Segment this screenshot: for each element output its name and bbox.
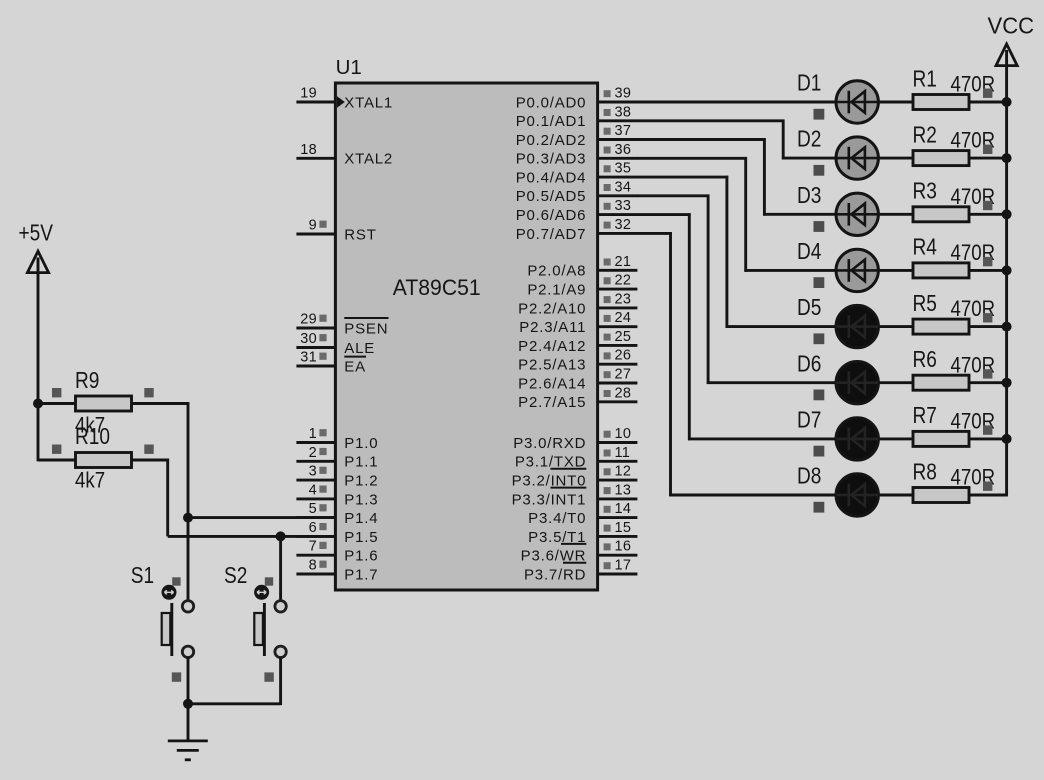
svg-text:6: 6 [309,520,317,536]
wire pin 33 vertical drop [688,213,691,440]
junction dot R7/VCC rail [1002,434,1012,444]
U1 value label AT89C51 [393,274,481,300]
svg-text:D8: D8 [797,464,821,489]
wire pin 32 horizontal run [637,232,672,235]
LED D7 internal wire [836,438,878,441]
wire pin 36 vertical drop [744,157,747,272]
svg-text:P0.5/AD5: P0.5/AD5 [516,188,587,205]
pin 10 gray marker square [604,431,611,438]
pin 10 P3.0/RXD wire stub [597,441,638,444]
svg-text:19: 19 [300,86,317,102]
LED D2 cathode bar [847,147,850,170]
INT1 overline [551,487,587,489]
svg-text:39: 39 [615,86,632,102]
svg-text:P1.6: P1.6 [344,548,378,565]
switch S1 contact bar [170,603,173,656]
pin 6 P1.5 wire stub [296,535,336,538]
svg-text:4k7: 4k7 [75,469,105,493]
wire D1 to R1 [878,101,913,104]
wire R9 to corner [132,402,190,405]
pin 23 gray marker square [604,296,611,303]
switch S1 lower marker square [172,672,181,681]
LED D5 anode triangle [851,316,865,338]
junction dot R5/VCC rail [1002,322,1012,332]
pin 1 gray marker square [319,429,326,436]
wire D6 to R6 [878,381,913,384]
pin 33 gray marker square [604,203,611,210]
wire pin 38 vertical drop [782,120,785,160]
svg-text:D7: D7 [797,408,821,433]
svg-text:P2.1/A9: P2.1/A9 [527,282,586,299]
svg-text:D1: D1 [797,71,821,96]
svg-text:15: 15 [615,520,632,536]
resistor R7 gray marker square [983,425,992,434]
LED D6 internal wire [836,381,878,384]
svg-text:P2.5/A13: P2.5/A13 [518,357,586,374]
pin 27 gray marker square [604,371,611,378]
svg-text:D5: D5 [797,296,821,321]
resistor R7 value label 470R [951,410,996,434]
pin 19 XTAL1 wire stub [296,101,336,104]
LED D3 internal wire [836,213,878,216]
svg-text:PSEN: PSEN [344,320,388,337]
pin 39 gray marker square [604,90,611,97]
pin 30 gray marker square [319,334,326,341]
pin 9 RST wire stub [296,233,336,236]
svg-text:EA: EA [344,358,366,375]
wire S1 to S2 bottom bus [188,702,281,705]
svg-text:29: 29 [300,312,317,328]
wire R6 to VCC rail [969,381,1008,384]
resistor R3 value label 470R [951,186,996,210]
resistor R3 gray marker square [983,201,992,210]
resistor R8 reference label [913,460,937,485]
pin 32 gray marker square [604,222,611,229]
+5V net label [19,221,53,246]
LED D8 reference label [797,464,821,489]
resistor R3 body [913,207,969,222]
svg-text:R10: R10 [75,424,110,449]
switch S2 actuator button [254,585,269,600]
pin 8 gray marker square [319,561,326,568]
svg-text:12: 12 [615,464,632,480]
svg-text:13: 13 [615,482,632,498]
wire to D8 [669,494,836,497]
LED D3 reference label [797,183,821,208]
LED D3 anode triangle [851,204,865,226]
VCC power rail vertical wire [1005,50,1008,495]
pin 24 P2.3/A11 wire stub [597,325,638,328]
junction dot R1/VCC rail [1002,97,1012,107]
LED D8 anode triangle [851,484,865,506]
svg-text:10: 10 [615,426,632,442]
pin 18 XTAL2 wire stub [296,157,336,160]
wire pin 38 horizontal run [637,119,785,122]
pin 12 P3.2/INT0 wire stub [597,479,638,482]
resistor R6 gray marker square [983,369,992,378]
U1 reference label [336,56,362,79]
LED D6 body circle [836,362,878,404]
svg-text:P2.4/A12: P2.4/A12 [518,338,586,355]
svg-text:P0.0/AD0: P0.0/AD0 [516,94,587,111]
switch S2 actuator arrows [257,590,266,594]
svg-text:VCC: VCC [988,13,1035,39]
VCC net label [988,13,1035,39]
LED D8 internal wire [836,494,878,497]
pin 6 gray marker square [319,523,326,530]
pin 5 gray marker square [319,504,326,511]
wire R2 to VCC rail [969,157,1008,160]
svg-text:P3.7/RD: P3.7/RD [524,566,586,583]
resistor R6 body [913,375,969,390]
wire pin 37 horizontal run [637,138,766,141]
LED D7 reference label [797,408,821,433]
wire R7 to VCC rail [969,437,1008,440]
resistor R7 reference label [913,404,937,429]
svg-text:R9: R9 [75,368,99,393]
pin 33 P0.6/AD6 wire stub [597,213,638,216]
pin 31 gray marker square [319,353,326,360]
svg-text:5: 5 [309,501,317,517]
pin 4 gray marker square [319,486,326,493]
pin 24 gray marker square [604,315,611,322]
PSEN overline [344,317,388,319]
svg-text:XTAL1: XTAL1 [344,94,393,111]
svg-text:D2: D2 [797,127,821,152]
LED D3 body circle [836,193,878,235]
pin 29 gray marker square [319,315,326,322]
svg-text:R6: R6 [913,347,937,372]
resistor R10 right marker square [144,445,153,454]
LED D7 gray marker square [814,446,825,457]
resistor R4 value label 470R [951,242,996,266]
XTAL1 clock input arrow [337,96,345,107]
resistor R1 reference label [913,67,937,92]
wire pin 36 horizontal run [637,157,747,160]
LED D2 gray marker square [814,165,825,176]
wire R9 corner down to P1.4 row [187,402,190,517]
resistor R5 body [913,319,969,334]
svg-text:34: 34 [615,179,632,195]
resistor R4 body [913,263,969,278]
svg-text:P0.2/AD2: P0.2/AD2 [516,132,587,149]
pin 37 P0.2/AD2 wire stub [597,138,638,141]
pin 25 P2.4/A12 wire stub [597,344,638,347]
LED D7 cathode bar [847,428,850,451]
LED D6 anode triangle [851,372,865,394]
pin 27 P2.6/A14 wire stub [597,382,638,385]
pin 28 gray marker square [604,390,611,397]
switch S2 top terminal circle [275,601,286,612]
LED D5 gray marker square [814,333,825,344]
wire pin 39 to D1 [637,101,836,104]
LED D4 body circle [836,249,878,291]
wire to D7 [688,437,836,440]
resistor R6 value label 470R [951,354,996,378]
pin 21 P2.0/A8 wire stub [597,269,638,272]
pin 2 P1.1 wire stub [296,460,336,463]
pin 13 P3.3/INT1 wire stub [597,497,638,500]
svg-text:P1.0: P1.0 [344,435,378,452]
svg-text:1: 1 [309,426,317,442]
svg-text:P3.4/T0: P3.4/T0 [528,510,586,527]
pin 3 gray marker square [319,467,326,474]
svg-text:XTAL2: XTAL2 [344,151,393,168]
pin 3 P1.2 wire stub [296,479,336,482]
wire pin 32 vertical drop [669,232,672,496]
LED D8 cathode bar [847,484,850,507]
pin 16 gray marker square [604,543,611,550]
wire pin 35 vertical drop [725,176,728,328]
switch S1 bottom terminal circle [182,646,193,657]
wire D8 to R8 [878,494,913,497]
LED D5 body circle [836,305,878,347]
svg-text:23: 23 [615,291,632,307]
wire pin 34 horizontal run [637,194,709,197]
VCC power arrow symbol [996,44,1017,66]
resistor R7 body [913,431,969,446]
resistor R9 value label 4k7 [75,414,105,438]
svg-text:2: 2 [309,445,317,461]
resistor R1 gray marker square [983,89,992,98]
LED D8 gray marker square [814,502,825,513]
wire pin 37 vertical drop [763,138,766,215]
resistor R1 value label 470R [951,73,996,97]
wire node to P1.4 pin [188,516,336,519]
pin 21 gray marker square [604,259,611,266]
svg-text:P1.4: P1.4 [344,510,378,527]
resistor R8 value label 470R [951,466,996,490]
svg-text:AT89C51: AT89C51 [393,274,481,300]
wire S2 bottom lead [279,657,282,705]
pin 39 P0.0/AD0 wire stub [597,101,638,104]
svg-text:R1: R1 [913,67,937,92]
switch S2 reference label [224,563,247,588]
resistor R4 gray marker square [983,257,992,266]
LED D1 gray marker square [814,109,825,120]
wire to D6 [707,381,836,384]
svg-text:P1.3: P1.3 [344,491,378,508]
LED D6 reference label [797,352,821,377]
LED D4 internal wire [836,269,878,272]
resistor R9 body [76,396,132,411]
wire D7 to R7 [878,437,913,440]
pin 22 P2.1/A9 wire stub [597,288,638,291]
svg-text:P3.3/INT1: P3.3/INT1 [512,491,587,508]
pin 35 gray marker square [604,165,611,172]
wire S1 bottom lead [187,657,190,705]
pin 7 gray marker square [319,542,326,549]
wire pin 35 horizontal run [637,176,728,179]
svg-text:3: 3 [309,464,317,480]
pin 29 PSEN wire stub [296,327,336,330]
svg-text:38: 38 [615,104,632,120]
svg-text:27: 27 [615,367,632,383]
svg-text:+5V: +5V [19,221,53,246]
svg-text:28: 28 [615,385,632,401]
pin 12 gray marker square [604,468,611,475]
wire to D3 [763,213,836,216]
pin 25 gray marker square [604,334,611,341]
pin 1 P1.0 wire stub [296,441,336,444]
LED D2 body circle [836,137,878,179]
svg-text:P0.3/AD3: P0.3/AD3 [516,151,587,168]
LED D5 internal wire [836,325,878,328]
switch S2 button cap [254,613,263,645]
pin 17 gray marker square [604,562,611,569]
svg-text:33: 33 [615,198,632,214]
wire corner to P1.5 pin [168,535,336,538]
pin 11 P3.1/TXD wire stub [597,460,638,463]
pin 31 EA wire stub [296,365,336,368]
switch S1 actuator button [162,585,177,600]
svg-text:R8: R8 [913,460,937,485]
switch S1 upper marker square [172,577,180,585]
ground symbol [168,741,208,760]
pin 32 P0.7/AD7 wire stub [597,232,638,235]
switch S2 lower marker square [264,672,273,681]
resistor R5 gray marker square [983,313,992,322]
pin 14 P3.4/T0 wire stub [597,516,638,519]
resistor R2 gray marker square [983,145,992,154]
LED D4 gray marker square [814,277,825,288]
svg-text:9: 9 [309,218,317,234]
svg-text:36: 36 [615,142,632,158]
resistor R10 body [76,453,132,468]
LED D1 body circle [836,81,878,123]
svg-text:P1.7: P1.7 [344,566,378,583]
LED D1 reference label [797,71,821,96]
resistor R1 body [913,95,969,110]
svg-text:4: 4 [309,482,317,498]
wire pin 34 vertical drop [707,195,710,385]
LED D3 cathode bar [847,203,850,226]
svg-text:P2.0/A8: P2.0/A8 [527,263,586,280]
svg-text:U1: U1 [336,56,362,79]
svg-text:R2: R2 [913,123,937,148]
svg-text:32: 32 [615,217,632,233]
svg-text:P2.7/A15: P2.7/A15 [518,394,586,411]
wire D5 to R5 [878,325,913,328]
svg-text:P0.6/AD6: P0.6/AD6 [516,207,587,224]
LED D6 cathode bar [847,371,850,394]
resistor R9 right marker square [144,388,153,397]
svg-text:ALE: ALE [344,340,375,357]
wire D2 to R2 [878,157,913,160]
svg-text:P0.4/AD4: P0.4/AD4 [516,170,587,187]
svg-text:P1.1: P1.1 [344,454,378,471]
IC U1 AT89C51 microcontroller body [335,83,597,590]
junction dot R4/VCC rail [1002,265,1012,275]
wire down to ground [187,704,190,742]
resistor R2 reference label [913,123,937,148]
resistor R10 value label 4k7 [75,469,105,493]
wire R8 to VCC rail [969,494,1008,497]
LED D1 cathode bar [847,91,850,114]
svg-text:25: 25 [615,329,632,345]
svg-text:D4: D4 [797,239,822,264]
junction dot +5V/R9 [33,399,43,409]
svg-text:P0.7/AD7: P0.7/AD7 [516,226,587,243]
switch S2 upper marker square [265,577,273,585]
resistor R9 reference label [75,368,99,393]
wire to D5 [726,325,836,328]
resistor R10 reference label [75,424,110,449]
pin 7 P1.6 wire stub [296,554,336,557]
pin 30 ALE wire stub [296,346,336,349]
pin 11 gray marker square [604,450,611,457]
switch S1 actuator arrows [164,590,173,594]
resistor R2 body [913,151,969,166]
svg-text:R3: R3 [913,179,937,204]
junction dot R2/VCC rail [1002,153,1012,163]
pin 17 P3.7/RD wire stub [597,573,638,576]
+5V vertical supply wire [37,258,40,405]
svg-text:21: 21 [615,254,632,270]
svg-text:24: 24 [615,310,632,326]
resistor R2 value label 470R [951,129,996,153]
pin 28 P2.7/A15 wire stub [597,400,638,403]
svg-text:P1.2: P1.2 [344,473,378,490]
svg-text:S2: S2 [224,563,247,588]
switch S1 top terminal circle [182,601,193,612]
wire D4 to R4 [878,269,913,272]
pin 13 gray marker square [604,487,611,494]
resistor R6 reference label [913,347,937,372]
svg-text:P2.6/A14: P2.6/A14 [518,375,586,392]
pin 16 P3.6/WR wire stub [597,554,638,557]
switch S1 reference label [131,563,154,588]
junction dot ground bus [183,699,193,709]
wire pin 33 horizontal run [637,213,691,216]
resistor R8 body [913,488,969,503]
pin 38 gray marker square [604,109,611,116]
LED D6 gray marker square [814,390,825,401]
resistor R10 left marker square [52,445,61,454]
pin 35 P0.4/AD4 wire stub [597,176,638,179]
svg-text:11: 11 [615,445,631,461]
pin 4 P1.3 wire stub [296,497,336,500]
wire R4 to VCC rail [969,269,1008,272]
pin 36 gray marker square [604,147,611,154]
junction dot R6/VCC rail [1002,378,1012,388]
LED D4 reference label [797,239,822,264]
svg-text:P3.0/RXD: P3.0/RXD [513,435,586,452]
pin 37 gray marker square [604,128,611,135]
LED D2 anode triangle [851,147,865,169]
resistor R4 reference label [913,235,938,260]
EA overline [344,356,366,358]
LED D5 cathode bar [847,315,850,338]
svg-text:P0.1/AD1: P0.1/AD1 [516,113,587,130]
resistor R8 gray marker square [983,482,992,491]
pin 36 P0.3/AD3 wire stub [597,157,638,160]
LED D4 anode triangle [851,260,865,282]
svg-text:D3: D3 [797,183,821,208]
svg-text:16: 16 [615,539,632,555]
pin 38 P0.1/AD1 wire stub [597,119,638,122]
svg-text:RST: RST [344,226,376,243]
pin 22 gray marker square [604,277,611,284]
LED D7 body circle [836,418,878,460]
svg-text:35: 35 [615,161,632,177]
LED D5 reference label [797,296,821,321]
pin 26 P2.5/A13 wire stub [597,363,638,366]
svg-text:8: 8 [309,558,317,574]
LED D1 anode triangle [851,91,865,113]
switch S1 button cap [162,613,171,645]
junction dot S2/P1.5 [276,531,286,541]
